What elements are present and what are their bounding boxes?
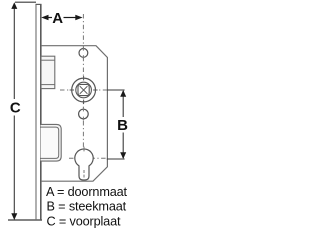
lower mounting hole: [79, 109, 89, 119]
dimension C bottom extension line: [8, 219, 42, 221]
dimension C up arrowhead: [11, 2, 17, 9]
lower hole center ticks: [82, 107, 84, 111]
vertical center line (dash-dot): [82, 14, 84, 147]
top hole center ticks: [82, 47, 84, 51]
follower center ticks N S E W: [83, 76, 85, 80]
latch bolt: [41, 56, 55, 88]
dimension A right arrowhead: [75, 15, 82, 21]
dimension B up arrowhead: [120, 90, 126, 97]
faceplate left edge: [35, 4, 37, 220]
cylinder center ticks: [83, 147, 85, 152]
follower outer circle: [72, 78, 96, 102]
deadbolt: [41, 124, 62, 161]
follower square diagonals: [80, 86, 88, 94]
svg-text:B: B: [117, 117, 128, 134]
top mounting hole: [79, 49, 88, 58]
faceplate right edge: [40, 4, 42, 220]
svg-text:C: C: [10, 100, 21, 117]
follower square hole: [78, 84, 89, 95]
dimension B down arrowhead: [120, 152, 126, 159]
lock case outline: [41, 46, 107, 182]
dimension A right shaft: [64, 17, 77, 19]
dimension C line lower segment: [13, 116, 15, 218]
dimension C down arrowhead: [11, 213, 17, 220]
dimension B line lower segment: [122, 133, 124, 159]
dimension C top extension line: [15, 1, 36, 3]
svg-text:A: A: [52, 10, 63, 27]
dimension A left arrowhead: [41, 15, 48, 21]
dimension C line upper segment: [13, 4, 15, 99]
dimension A left shaft: [46, 17, 53, 19]
svg-text:C = voorplaat: C = voorplaat: [47, 214, 121, 228]
svg-text:A = doornmaat: A = doornmaat: [46, 185, 128, 199]
faceplate top cap: [36, 3, 42, 5]
svg-text:B = steekmaat: B = steekmaat: [47, 200, 127, 214]
dimension B top extension line: [107, 89, 125, 91]
dimension B bottom extension line: [107, 158, 125, 160]
horizontal center line through follower: [60, 89, 107, 91]
euro cylinder profile: [75, 149, 93, 180]
dimension B line upper segment: [122, 91, 124, 117]
horizontal center line through cylinder: [69, 157, 107, 159]
follower inner circle: [76, 82, 92, 98]
